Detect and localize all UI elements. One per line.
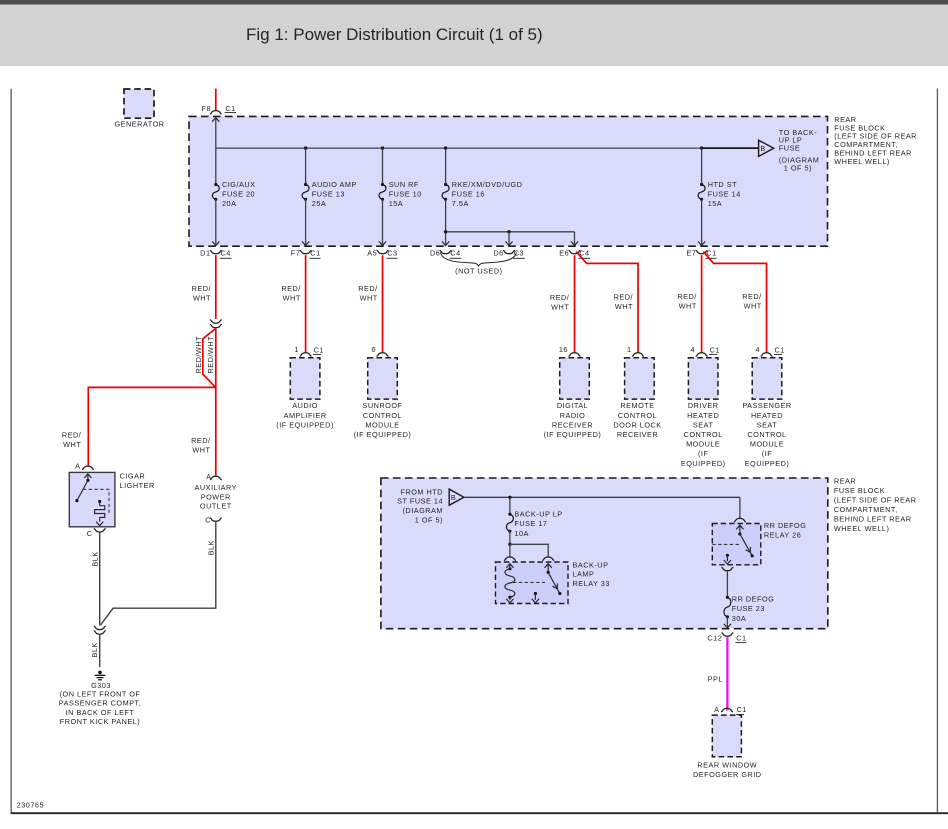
wire ppl to defogger grid (726, 637, 728, 710)
svg-text:25A: 25A (312, 199, 326, 208)
svg-text:BACK-UP LP: BACK-UP LP (514, 509, 562, 518)
sun rf fuse 10 drop wire (382, 148, 384, 184)
svg-text:RADIO: RADIO (560, 411, 586, 420)
svg-text:EQUIPPED): EQUIPPED) (745, 459, 790, 468)
svg-text:RED/: RED/ (550, 293, 570, 302)
node: htd st tap (700, 146, 703, 149)
svg-text:RED/WHT: RED/WHT (194, 336, 203, 374)
svg-text:FUSE 10: FUSE 10 (389, 189, 422, 198)
svg-text:C1: C1 (737, 705, 747, 714)
svg-text:(IF EQUIPPED): (IF EQUIPPED) (276, 420, 334, 429)
label: rear fuse block (lower right) (834, 476, 917, 533)
label: from htd st fuse 14 (397, 487, 443, 524)
ground G303 (59, 671, 141, 727)
aux power outlet label (195, 483, 238, 511)
svg-text:FUSE 14: FUSE 14 (708, 189, 741, 198)
relay26 switch (736, 525, 754, 557)
svg-text:POWER: POWER (201, 492, 231, 501)
wire fuse17 to relay33 (509, 531, 511, 544)
svg-text:AMPLIFIER: AMPLIFIER (284, 411, 327, 420)
inline splice connector on D1 wire (210, 320, 222, 328)
connector into relay33 coil (504, 557, 516, 560)
wire E7 red/wht down to driver seat module (701, 255, 703, 353)
svg-text:CIGAR: CIGAR (120, 472, 146, 481)
svg-text:ST FUSE 14: ST FUSE 14 (397, 497, 443, 506)
passenger heated seat control module box (742, 345, 791, 468)
wire blk from aux outlet (101, 522, 216, 625)
svg-text:RED/: RED/ (742, 292, 762, 301)
digital radio receiver box (544, 345, 602, 439)
svg-text:B: B (760, 144, 765, 153)
svg-text:1 OF 5): 1 OF 5) (784, 163, 812, 172)
svg-text:PASSENGER: PASSENGER (742, 401, 791, 410)
svg-text:(DIAGRAM: (DIAGRAM (403, 506, 444, 515)
wire fuse20 to D1 (212, 199, 219, 245)
svg-text:E6: E6 (559, 248, 569, 257)
svg-text:RKE/XM/DVD/UGD: RKE/XM/DVD/UGD (452, 180, 523, 189)
wire E6 red/wht down to digital radio (574, 255, 576, 353)
sunroof control module box (354, 345, 412, 439)
back-up lamp relay 33 box (496, 560, 610, 603)
svg-text:SEAT: SEAT (757, 420, 778, 429)
relay33 linkage (dashed) (513, 581, 545, 583)
svg-text:CONTROL: CONTROL (618, 411, 657, 420)
svg-text:CONTROL: CONTROL (363, 411, 402, 420)
cigar lighter box (69, 472, 154, 527)
svg-text:30A: 30A (732, 614, 746, 623)
wire coil pin drop (509, 544, 511, 556)
svg-text:RED/: RED/ (62, 431, 82, 440)
bus line in fuse block (216, 147, 702, 149)
fuse 23 (RR DEFOG 30A) (724, 595, 774, 623)
svg-text:COMPARTMENT,: COMPARTMENT, (834, 505, 898, 514)
svg-text:10A: 10A (514, 529, 528, 538)
svg-text:6: 6 (371, 345, 376, 354)
relay33 coil (505, 564, 515, 603)
svg-text:CONTROL: CONTROL (684, 430, 723, 439)
svg-text:D1: D1 (200, 248, 210, 257)
svg-text:D6: D6 (493, 248, 503, 257)
svg-text:BLK: BLK (206, 540, 215, 555)
svg-text:RED/WHT: RED/WHT (206, 336, 215, 374)
connector D6/C4 (430, 248, 461, 258)
svg-text:1: 1 (295, 345, 300, 354)
svg-text:REAR WINDOW: REAR WINDOW (697, 761, 757, 770)
wire fuse16 down to D6 (442, 199, 449, 245)
label red/wht E7a (677, 292, 697, 311)
svg-text:PPL: PPL (708, 675, 723, 684)
relay33 output pin (532, 592, 539, 603)
svg-text:BLK: BLK (90, 551, 99, 566)
bus segment to B triangle (702, 147, 759, 149)
svg-text:(IF EQUIPPED): (IF EQUIPPED) (544, 430, 602, 439)
cig/aux fuse 20 drop wire (215, 148, 217, 184)
svg-text:C12: C12 (707, 633, 722, 642)
svg-text:REMOTE: REMOTE (620, 401, 654, 410)
label red/wht F7 (281, 284, 301, 303)
node: audio amp tap (304, 146, 307, 149)
sub-bus to E6 (446, 231, 575, 233)
feed line in lower fuse block (464, 496, 740, 498)
connector below relay26 (721, 567, 733, 570)
svg-text:SUNROOF: SUNROOF (363, 401, 403, 410)
aux power outlet pin C (205, 515, 222, 524)
svg-text:LAMP: LAMP (573, 570, 595, 579)
fuse 14 (HTD ST 15A) (698, 180, 741, 208)
connector E7/C1 (686, 248, 716, 258)
connector into relay33 switch (542, 557, 554, 560)
rke fuse 16 drop wire (445, 148, 447, 184)
svg-text:WHT: WHT (193, 294, 211, 303)
cigar lighter pin C (87, 529, 106, 539)
svg-text:WHT: WHT (63, 440, 81, 449)
svg-text:A5: A5 (367, 248, 377, 257)
svg-text:HTD ST: HTD ST (708, 180, 737, 189)
cigar lighter switch (75, 474, 91, 502)
svg-text:7.5A: 7.5A (452, 199, 469, 208)
sub-bus to relay33 switch (510, 544, 548, 556)
svg-text:B: B (451, 493, 456, 502)
svg-text:FUSE 16: FUSE 16 (452, 189, 485, 198)
audio amp fuse 13 drop wire (305, 148, 307, 184)
header dark top bar (0, 0, 948, 5)
svg-text:SUN RF: SUN RF (389, 180, 419, 189)
svg-text:230765: 230765 (17, 800, 44, 809)
svg-text:A: A (206, 472, 211, 481)
svg-text:RED/: RED/ (192, 284, 212, 293)
svg-text:AUDIO AMP: AUDIO AMP (312, 180, 357, 189)
frame right border (936, 89, 938, 813)
generator box (114, 89, 164, 128)
label red/wht E6b (614, 293, 634, 312)
driver heated seat control module box (681, 345, 726, 468)
svg-text:WHT: WHT (192, 446, 210, 455)
svg-text:FUSE 23: FUSE 23 (732, 604, 765, 613)
svg-text:16: 16 (559, 345, 568, 354)
wire E7 branch to passenger seat module (703, 252, 766, 353)
svg-text:4: 4 (755, 345, 760, 354)
svg-text:BEHIND LEFT REAR: BEHIND LEFT REAR (834, 515, 912, 524)
svg-text:RR DEFOG: RR DEFOG (764, 521, 807, 530)
svg-text:FRONT KICK PANEL): FRONT KICK PANEL) (60, 717, 140, 726)
svg-text:C1: C1 (736, 633, 746, 642)
svg-text:15A: 15A (708, 199, 722, 208)
ground splice connector (94, 626, 106, 634)
svg-text:1: 1 (627, 345, 632, 354)
fuse 17 (BACK-UP LP 10A) (506, 509, 562, 538)
svg-text:BACK-UP: BACK-UP (573, 560, 609, 569)
svg-text:(ON LEFT FRONT OF: (ON LEFT FRONT OF (60, 689, 141, 698)
svg-text:RR DEFOG: RR DEFOG (732, 595, 775, 604)
svg-text:RELAY 26: RELAY 26 (764, 530, 801, 539)
connector A5/C3 (367, 248, 397, 258)
connector D6/C3 (493, 248, 524, 258)
wire fuse23 to C12 (724, 617, 731, 628)
wire fuse14 to E7 (698, 199, 705, 245)
triangle B from htd st fuse (449, 489, 464, 505)
wire blk from cigar lighter (99, 533, 101, 626)
svg-text:F8: F8 (201, 104, 211, 113)
rr defog relay 26 box (712, 521, 806, 565)
svg-text:WHT: WHT (360, 294, 378, 303)
node: sun rf tap (381, 146, 384, 149)
relay26 output pin (724, 554, 731, 564)
label: to back-up lp fuse (779, 128, 820, 172)
svg-text:CONTROL: CONTROL (747, 430, 786, 439)
rear window defogger grid pin A/C1 (714, 705, 747, 714)
svg-text:RED/: RED/ (358, 284, 378, 293)
svg-text:C: C (205, 515, 211, 524)
wire branch to cigar lighter (88, 387, 216, 466)
svg-text:F7: F7 (291, 248, 301, 257)
svg-text:FUSE 17: FUSE 17 (514, 519, 547, 528)
cigar lighter pin A (75, 462, 94, 471)
svg-text:C1: C1 (225, 104, 235, 113)
wire D1 red/wht down (215, 255, 217, 319)
label red/wht D1 (192, 284, 212, 303)
wire feed to rr defog relay (739, 497, 741, 518)
wire A5 red/wht down (382, 255, 384, 353)
svg-text:REAR: REAR (834, 476, 856, 485)
header gray title bar (0, 5, 948, 67)
svg-text:(IF: (IF (762, 449, 772, 458)
wire F7 red/wht down (305, 255, 307, 353)
label: rear fuse block (top right) (834, 115, 917, 166)
connector F7/C1 (291, 248, 321, 258)
node: relay33 coil tap (508, 543, 511, 546)
label red/wht A5 (358, 284, 378, 303)
svg-text:GENERATOR: GENERATOR (114, 119, 164, 128)
svg-text:RED/: RED/ (614, 293, 634, 302)
svg-text:WHT: WHT (551, 303, 569, 312)
svg-text:FROM HTD: FROM HTD (400, 487, 443, 496)
svg-text:C: C (87, 529, 93, 538)
connector E6/C4 (559, 248, 590, 258)
svg-text:DOOR LOCK: DOOR LOCK (613, 420, 661, 429)
wire fuse13 to F7 (302, 199, 309, 245)
fuse 16 (RKE/XM/DVD/UGD 7.5A) (442, 180, 522, 208)
svg-text:LIGHTER: LIGHTER (120, 481, 155, 490)
wire jog pair below splice (203, 329, 216, 477)
svg-text:AUXILIARY: AUXILIARY (195, 483, 238, 492)
svg-text:Fig 1: Power Distribution Circ: Fig 1: Power Distribution Circuit (1 of … (246, 25, 543, 44)
svg-text:MODULE: MODULE (686, 440, 720, 449)
svg-text:RED/: RED/ (191, 436, 211, 445)
label red/wht aux branch (191, 436, 211, 455)
svg-text:(NOT USED): (NOT USED) (455, 267, 502, 276)
svg-text:A: A (75, 462, 80, 471)
svg-text:WHT: WHT (679, 302, 697, 311)
label red/wht E6a (550, 293, 570, 312)
svg-text:C1: C1 (310, 248, 320, 257)
svg-text:C3: C3 (387, 248, 397, 257)
svg-text:A: A (714, 705, 719, 714)
wire F8 feed (red) (215, 89, 217, 111)
svg-text:MODULE: MODULE (365, 420, 399, 429)
wire e6 drop (571, 232, 578, 246)
fuse 13 (AUDIO AMP 25A) (302, 180, 357, 208)
svg-text:C1: C1 (710, 345, 720, 354)
svg-text:CIG/AUX: CIG/AUX (222, 180, 256, 189)
svg-text:DRIVER: DRIVER (688, 401, 719, 410)
node: d6 c3 tap (507, 230, 510, 233)
svg-text:DEFOGGER GRID: DEFOGGER GRID (693, 770, 762, 779)
svg-text:C1: C1 (775, 345, 785, 354)
svg-text:C4: C4 (450, 248, 460, 257)
svg-text:FUSE 20: FUSE 20 (222, 189, 255, 198)
connector D1/C4 (200, 248, 231, 258)
relay33 switch (545, 564, 562, 595)
svg-text:WHEEL WELL): WHEEL WELL) (834, 157, 890, 166)
audio amplifier box (276, 345, 334, 430)
wire fuse10 to A5 (379, 199, 386, 245)
svg-text:C1: C1 (314, 345, 324, 354)
svg-text:RED/: RED/ (677, 292, 697, 301)
svg-text:WHT: WHT (744, 302, 762, 311)
svg-text:1 OF 5): 1 OF 5) (415, 515, 443, 524)
triangle B to back-up lp fuse (759, 140, 774, 156)
svg-text:(IF EQUIPPED): (IF EQUIPPED) (354, 430, 412, 439)
aux power outlet pin A (206, 472, 222, 481)
svg-text:OUTLET: OUTLET (200, 502, 232, 511)
rear fuse block (lower) dashed box (381, 478, 828, 629)
htd st fuse 14 drop wire (701, 148, 703, 184)
frame left border (10, 89, 12, 813)
svg-text:C4: C4 (221, 248, 231, 257)
svg-text:DIGITAL: DIGITAL (557, 401, 588, 410)
connector F8/C1 (201, 104, 236, 114)
wire blk to ground (99, 635, 101, 667)
svg-text:RECEIVER: RECEIVER (617, 430, 658, 439)
rear window defogger grid box (693, 715, 762, 779)
rear fuse block (top) dashed box (189, 116, 828, 246)
svg-text:AUDIO: AUDIO (292, 401, 318, 410)
svg-text:EQUIPPED): EQUIPPED) (681, 459, 726, 468)
svg-text:FUSE BLOCK: FUSE BLOCK (834, 486, 885, 495)
wire to back-up lp fuse (509, 497, 511, 514)
svg-text:15A: 15A (389, 199, 403, 208)
fuse 20 (CIG/AUX 20A) (212, 180, 255, 208)
cigar lighter heating element (95, 500, 105, 526)
svg-text:RECEIVER: RECEIVER (552, 420, 593, 429)
wire into fuse block with up arrow (212, 118, 219, 149)
svg-text:SEAT: SEAT (693, 420, 714, 429)
svg-text:FUSE: FUSE (779, 143, 800, 152)
cigar lighter linkage (dashed) (83, 489, 109, 513)
remote control door lock receiver box (613, 345, 661, 439)
svg-text:D6: D6 (430, 248, 440, 257)
connector C12/C1 (707, 633, 746, 643)
svg-text:WHEEL WELL): WHEEL WELL) (834, 524, 890, 533)
svg-text:IN BACK OF LEFT: IN BACK OF LEFT (66, 708, 135, 717)
svg-text:E7: E7 (686, 248, 696, 257)
svg-text:MODULE: MODULE (750, 440, 784, 449)
frame bottom border (11, 812, 948, 814)
svg-text:WHT: WHT (283, 294, 301, 303)
svg-text:WHT: WHT (615, 302, 633, 311)
wire d6 c3 drop (505, 232, 512, 246)
svg-text:(LEFT SIDE OF REAR: (LEFT SIDE OF REAR (834, 496, 917, 505)
svg-text:HEATED: HEATED (751, 411, 783, 420)
svg-text:FUSE 13: FUSE 13 (312, 189, 345, 198)
node: back-up fuse tap (508, 496, 511, 499)
node: rke tap (444, 146, 447, 149)
svg-text:RELAY 33: RELAY 33 (573, 579, 610, 588)
svg-text:HEATED: HEATED (687, 411, 719, 420)
node: d6 c4 tap (444, 230, 447, 233)
svg-text:(IF: (IF (698, 449, 708, 458)
label red/wht E7b (742, 292, 762, 311)
rotated red/wht labels at splice (194, 336, 215, 374)
svg-text:PASSENGER COMPT,: PASSENGER COMPT, (59, 699, 141, 708)
wire relay26 to fuse23 (726, 571, 728, 597)
relay26 linkage (dashed) (712, 543, 740, 545)
svg-text:BLK: BLK (90, 642, 99, 657)
svg-text:4: 4 (691, 345, 696, 354)
svg-text:20A: 20A (222, 199, 236, 208)
label red/wht cigar branch (62, 431, 82, 450)
wire E6 branch to remote receiver (576, 252, 638, 353)
svg-text:RED/: RED/ (281, 284, 301, 293)
connector into relay26 (734, 518, 746, 521)
fuse 10 (SUN RF 15A) (379, 180, 422, 208)
not used brace (441, 252, 517, 275)
